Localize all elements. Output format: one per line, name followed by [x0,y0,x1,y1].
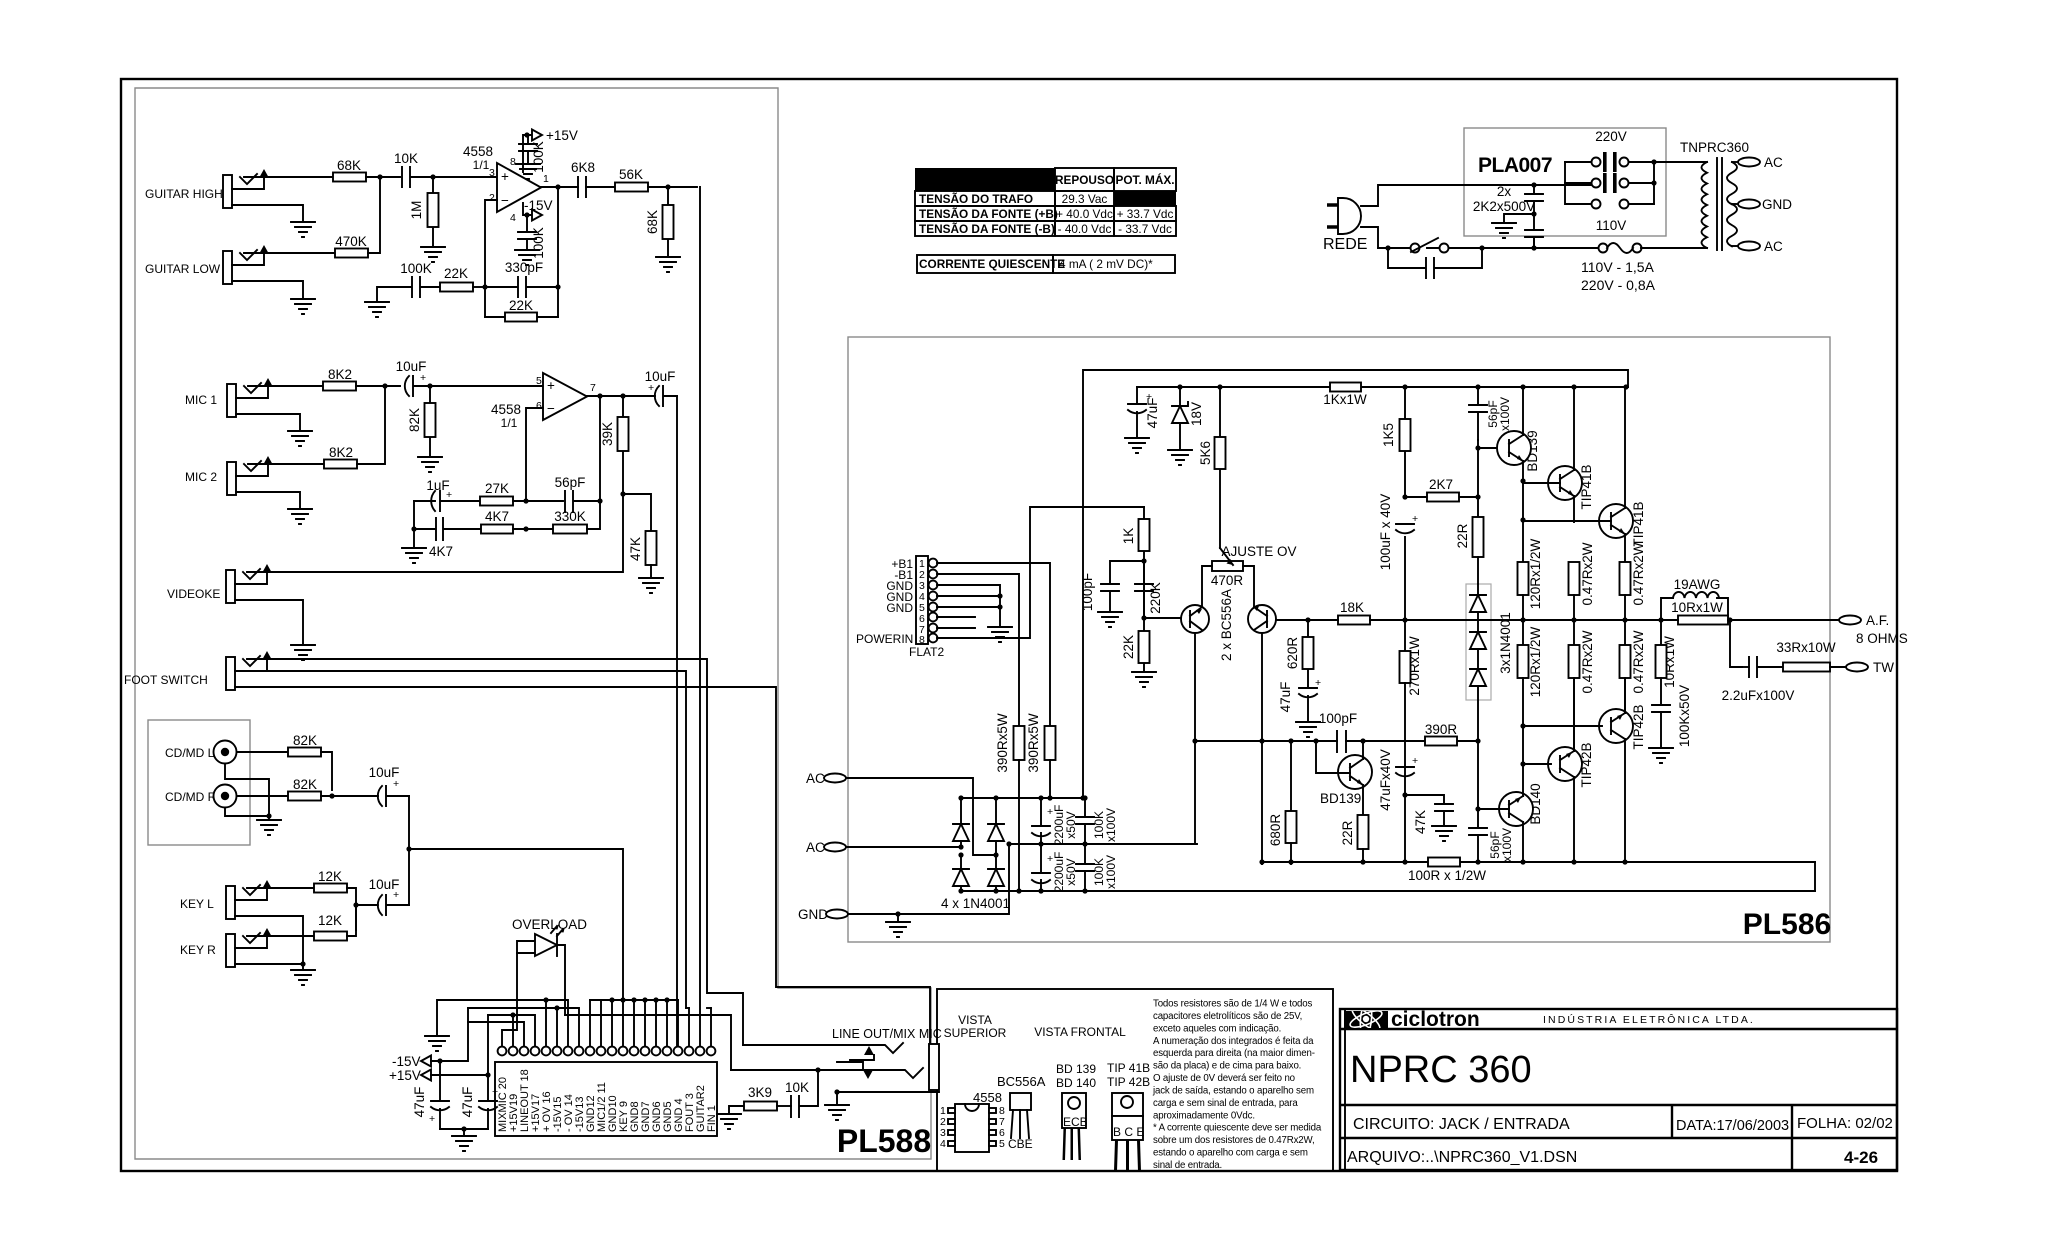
svg-text:LINE OUT/MIX MIC: LINE OUT/MIX MIC [832,1027,942,1041]
svg-text:22K: 22K [444,266,468,281]
svg-text:19AWG: 19AWG [1674,577,1721,592]
line out ring contact [731,1068,923,1078]
transistor BC556A (2) [1248,605,1276,633]
svg-text:22R: 22R [1455,523,1470,548]
svg-text:2K7: 2K7 [1429,477,1453,492]
svg-text:GND: GND [798,907,828,922]
gnd rail junction dots [590,999,678,1001]
junction base BD139 [1475,445,1480,450]
ground between caps [1504,214,1534,223]
svg-text:−: − [547,401,555,416]
svg-text:10K: 10K [785,1080,809,1095]
wire op-amp output [541,186,578,188]
svg-text:5: 5 [999,1138,1005,1150]
svg-text:56K: 56K [619,167,643,182]
svg-text:FLAT2: FLAT2 [909,645,944,659]
svg-text:330K: 330K [554,509,586,524]
svg-text:470K: 470K [335,234,367,249]
svg-text:+: + [1146,391,1152,403]
svg-text:3K9: 3K9 [748,1085,772,1100]
svg-text:18K: 18K [1340,600,1364,615]
svg-text:220V: 220V [1595,129,1627,144]
ground 0V rail [425,1036,449,1051]
svg-text:110V: 110V [1596,218,1627,233]
svg-text:+ 33.7 Vdc: + 33.7 Vdc [1117,207,1174,221]
wire base bc556a-2 to 18K [1276,619,1338,621]
svg-text:1K5: 1K5 [1381,423,1396,447]
svg-text:KEY L: KEY L [180,897,214,911]
svg-text:4 mA ( 2 mV DC)*: 4 mA ( 2 mV DC)* [1059,257,1153,271]
svg-text:esquerda para direita (na mai: esquerda para direita (na maior dimen- [1153,1048,1315,1059]
connector pins [498,1047,716,1056]
svg-text:1/1: 1/1 [501,416,518,430]
svg-text:120Rx1/2W: 120Rx1/2W [1528,538,1543,609]
svg-text:capacitores eletrolíticos sã: capacitores eletrolíticos são de 25V, [1153,1011,1302,1022]
wire pin6 pin7 stubs [937,617,975,628]
line out tip contact [743,1043,903,1053]
svg-text:PLA007: PLA007 [1478,154,1552,177]
wire to op-amp pin5 [430,385,543,387]
svg-text:FIN 1: FIN 1 [706,1105,718,1132]
wire guitar high tip [244,176,333,178]
svg-text:SUPERIOR: SUPERIOR [944,1026,1007,1040]
svg-text:aproximadamente 0Vdc.: aproximadamente 0Vdc. [1153,1110,1255,1121]
svg-text:220K: 220K [1148,582,1163,614]
svg-text:TW: TW [1873,660,1894,675]
svg-text:BD 140: BD 140 [1056,1076,1096,1090]
table header black cell [915,168,1055,191]
svg-text:KEY R: KEY R [180,943,216,957]
svg-text:x100V: x100V [1104,855,1118,889]
svg-text:-15V: -15V [392,1054,421,1069]
ground mic1 sleeve [236,414,300,431]
svg-text:5K6: 5K6 [1198,441,1213,465]
svg-text:sobre um dos resistores de 0: sobre um dos resistores de 0.47Rx2W, [1153,1135,1315,1146]
svg-text:estando o aparelho com carga: estando o aparelho com carga e sem [1153,1148,1308,1159]
svg-text:5: 5 [536,375,542,387]
svg-text:FOOT SWITCH: FOOT SWITCH [124,673,208,687]
svg-text:PL588: PL588 [837,1123,931,1159]
svg-text:0.47Rx2W: 0.47Rx2W [1580,542,1595,605]
ground [515,250,539,265]
svg-text:GUITAR HIGH: GUITAR HIGH [145,187,223,201]
svg-text:100R x 1/2W: 100R x 1/2W [1408,868,1486,883]
svg-text:4: 4 [510,212,516,224]
wire [513,500,563,502]
svg-text:47K: 47K [628,537,643,561]
svg-text:+: + [648,382,654,394]
terminal TW [1846,663,1868,672]
svg-text:TNPRC360: TNPRC360 [1680,140,1749,155]
svg-text:TIP 41B: TIP 41B [1107,1061,1150,1075]
wire GND5 [937,596,1000,607]
svg-text:POWERIN: POWERIN [856,632,913,646]
svg-text:82K: 82K [293,733,317,748]
ground under 82K [418,457,442,472]
wire -B1 [937,574,1019,726]
wire inverting input [526,408,543,501]
connector box FIN20 [495,1062,717,1136]
svg-text:4558: 4558 [973,1090,1002,1105]
svg-text:47uF: 47uF [460,1087,475,1118]
svg-text:BD 139: BD 139 [1056,1062,1096,1076]
wire fout riser [686,1007,689,1009]
wire 330K right [587,501,600,529]
svg-text:ARQUIVO:..\NPRC360_V1.DSN: ARQUIVO:..\NPRC360_V1.DSN [1347,1149,1577,1166]
svg-text:120Rx1/2W: 120Rx1/2W [1528,626,1543,697]
svg-text:47K: 47K [1413,810,1428,834]
svg-text:56pF: 56pF [555,475,586,490]
svg-text:GND: GND [886,601,913,615]
wire 8K2 to node [357,386,385,464]
capacitor across switch [1388,248,1482,278]
svg-text:390Rx5W: 390Rx5W [995,713,1010,773]
svg-text:x100V: x100V [1498,397,1512,431]
svg-text:jack de saída, estando o apa: jack de saída, estando o aparelho sem [1152,1085,1314,1096]
wire cd L [237,751,288,753]
svg-text:B C E: B C E [1113,1125,1144,1139]
wire bus mic out [676,396,678,1046]
capacitor 2K2x500V lower [1525,214,1543,248]
svg-text:+: + [1047,853,1053,865]
svg-text:2.2uFx100V: 2.2uFx100V [1722,688,1795,703]
svg-text:6: 6 [536,400,542,412]
ground mic2 sleeve [236,492,300,509]
selector mid row [1565,182,1654,184]
jack sleeve ground [837,1092,939,1105]
svg-text:A.F.: A.F. [1866,613,1889,628]
svg-text:39K: 39K [600,422,615,446]
svg-text:A numeração dos integrados é f: A numeração dos integrados é feita da [1153,1036,1314,1047]
svg-text:REDE: REDE [1323,236,1367,253]
svg-text:100pF: 100pF [1080,573,1095,611]
transistor BC556A (1) [1181,605,1209,633]
svg-text:são da placa) e de cima par: são da placa) e de cima para baixo. [1153,1061,1301,1072]
node A junction [377,174,382,179]
svg-text:Todos resistores são de 1/4 W: Todos resistores são de 1/4 W e todos [1153,999,1313,1010]
svg-text:68K: 68K [645,210,660,234]
wire FIN pin8 [937,507,1144,638]
svg-text:+: + [393,889,399,901]
wire GND3 [937,585,1000,596]
svg-text:+: + [429,1113,435,1125]
svg-text:4 x 1N4001: 4 x 1N4001 [941,896,1010,911]
pin labels [497,1069,718,1132]
svg-text:FOLHA: 02/02: FOLHA: 02/02 [1797,1115,1893,1132]
svg-text:4558: 4558 [491,402,521,417]
wire pin4 to -15V [523,203,531,215]
ground [516,164,540,179]
bias line [1197,740,1478,742]
svg-text:OVERLOAD: OVERLOAD [512,917,587,932]
pin riser wires [437,1000,579,1046]
svg-text:VIDEOKE: VIDEOKE [167,587,220,601]
svg-text:- 33.7 Vdc: - 33.7 Vdc [1118,222,1172,236]
rails rectifier [961,797,1083,799]
svg-text:REPOUSO: REPOUSO [1055,173,1114,187]
svg-text:220V - 0,8A: 220V - 0,8A [1581,277,1656,293]
svg-text:18V: 18V [1189,402,1204,426]
wire pin8 to +15V [523,135,531,172]
svg-text:+15V: +15V [389,1068,421,1083]
node junction 1M [430,174,435,179]
svg-text:+: + [393,778,399,790]
svg-text:O ajuste de 0V deverá ser: O ajuste de 0V deverá ser feito no [1153,1073,1295,1084]
corrente quiescente box [917,255,1053,273]
svg-text:* A corrente quiescente deve s: * A corrente quiescente deve ser medida [1153,1123,1322,1134]
svg-text:NPRC 360: NPRC 360 [1350,1049,1532,1091]
svg-text:390R: 390R [1425,722,1458,737]
wire bc556 collector 2 [1261,633,1263,864]
svg-text:BC556A: BC556A [997,1074,1046,1089]
mains switch [1378,247,1455,249]
row tensao do trafo [915,191,1055,206]
wire selector to plug line [1531,182,1536,187]
svg-text:TENSÃO DA FONTE (-B): TENSÃO DA FONTE (-B) [919,222,1055,236]
resistor 3K9 [717,1114,741,1129]
svg-text:INDÚSTRIA ELETRÔNICA LTDA.: INDÚSTRIA ELETRÔNICA LTDA. [1543,1013,1755,1026]
svg-text:x100V: x100V [1104,808,1118,842]
svg-text:22K: 22K [1121,635,1136,659]
svg-text:CBE: CBE [1008,1137,1033,1151]
svg-text:100uF x 40V: 100uF x 40V [1378,494,1393,571]
svg-text:12K: 12K [318,913,342,928]
terminal A.F. [1839,616,1861,625]
svg-text:29.3 Vac: 29.3 Vac [1062,192,1108,206]
tweeter branch [1730,620,1742,667]
svg-text:82K: 82K [293,777,317,792]
ground main [897,914,899,922]
svg-text:ciclotron: ciclotron [1391,1008,1480,1031]
diode D1 [961,798,996,891]
svg-text:CD/MD R: CD/MD R [165,790,217,804]
wire 470K to node A [368,177,380,253]
svg-text:+15V: +15V [546,128,578,143]
svg-text:TIP 42B: TIP 42B [1107,1075,1150,1089]
wire cd R [237,795,288,797]
svg-text:0.47Rx2W: 0.47Rx2W [1631,542,1646,605]
wire [513,528,553,530]
wire plug line [1361,185,1596,206]
svg-text:8 OHMS: 8 OHMS [1856,631,1908,646]
wire to bus [648,186,697,188]
svg-text:+: + [446,489,452,501]
row fonte +B [915,206,1055,221]
ground guitar high sleeve [232,205,303,222]
svg-text:+ 40.0 Vdc: + 40.0 Vdc [1056,207,1113,221]
wire guitar low tip [244,252,335,254]
rail +B [1137,386,1628,388]
svg-text:4: 4 [940,1138,946,1150]
svg-text:390Rx5W: 390Rx5W [1026,713,1041,773]
pot end wires [1202,566,1254,606]
svg-text:1/1: 1/1 [473,158,490,172]
wire feedback node to 330pF [485,187,558,317]
svg-text:+: + [501,169,509,184]
junction bias line [1475,738,1480,743]
svg-text:330pF: 330pF [505,260,543,275]
svg-text:CD/MD L: CD/MD L [165,746,215,760]
PL586 power amp boundary box [848,337,1830,942]
svg-text:22R: 22R [1340,820,1355,845]
svg-text:3: 3 [489,167,495,179]
svg-text:3x1N4001: 3x1N4001 [1498,612,1513,674]
ground for 100K input [365,302,389,317]
wire foot switch sleeve [235,687,930,1045]
wire [586,186,615,188]
wire cd mix to bus [409,796,623,1000]
wire +B1 [937,563,1050,726]
wire key R tip [247,935,314,937]
BC556A package [997,1074,1046,1151]
svg-text:0.47Rx2W: 0.47Rx2W [1631,630,1646,693]
svg-text:MIC 1: MIC 1 [185,393,217,407]
wire key L tip [247,887,314,889]
svg-text:47uF: 47uF [412,1087,427,1118]
mains plug REDE [1338,198,1361,234]
svg-text:8: 8 [919,634,925,646]
svg-text:27K: 27K [485,481,509,496]
svg-text:10Rx1W: 10Rx1W [1671,600,1723,615]
wire mic2 tip [248,463,324,465]
svg-text:+: + [492,1086,498,1098]
svg-text:4558: 4558 [463,144,493,159]
svg-text:100pF: 100pF [1319,711,1357,726]
svg-text:12K: 12K [318,869,342,884]
svg-text:GND: GND [1762,197,1792,212]
terminal -15V [532,210,542,221]
svg-text:CIRCUITO: JACK / ENTRADA: CIRCUITO: JACK / ENTRADA [1353,1116,1570,1133]
ground under 1M [421,247,445,262]
wire mic1 tip [248,385,323,387]
svg-text:-15V: -15V [524,198,553,213]
secondary GND mid [1732,203,1742,205]
svg-text:BD139: BD139 [1320,791,1361,806]
wire led down [502,953,517,1046]
rail -B bias [1262,861,1815,863]
svg-text:620R: 620R [1285,637,1300,670]
svg-text:+: + [1047,806,1053,818]
svg-text:−: − [501,193,509,208]
page outer border [121,79,1897,1171]
svg-text:8K2: 8K2 [329,445,353,460]
svg-text:POT. MÁX.: POT. MÁX. [1116,173,1175,187]
svg-text:AC: AC [1764,155,1783,170]
svg-text:VISTA: VISTA [958,1013,992,1027]
wire videoke tip to mix node [247,494,623,572]
wire bc556 collector 1 [1194,633,1196,844]
svg-text:33Rx10W: 33Rx10W [1776,640,1836,655]
diode D3 D4 [953,869,1004,886]
wire op-amp2 output [587,395,655,397]
svg-text:47uF: 47uF [1278,682,1293,713]
wire base bc556a-1 [1144,617,1181,619]
ground guitar low sleeve [232,281,303,299]
svg-text:4K7: 4K7 [429,544,453,559]
svg-text:0.47Rx2W: 0.47Rx2W [1580,630,1595,693]
wire plug neutral [1361,227,1378,248]
wire [356,385,400,387]
row fonte -B [915,221,1055,236]
svg-text:- 40.0 Vdc: - 40.0 Vdc [1058,222,1112,236]
wire [366,176,400,178]
svg-text:MIC 2: MIC 2 [185,470,217,484]
fuse [1534,247,1599,249]
svg-text:GUITAR LOW: GUITAR LOW [145,262,221,276]
svg-text:x50V: x50V [1064,858,1078,885]
PL588 preamp boundary box [135,88,931,1159]
svg-text:100K: 100K [531,141,546,173]
svg-text:AC: AC [806,840,825,855]
svg-text:4-26: 4-26 [1844,1148,1878,1167]
svg-text:exceto aqueles com indicação.: exceto aqueles com indicação. [1153,1023,1281,1034]
output rail [1308,619,1661,621]
svg-text:47uFx40V: 47uFx40V [1378,749,1393,811]
svg-text:7: 7 [590,382,596,394]
secondary AC top [1732,161,1742,163]
svg-text:TENSÃO DA FONTE (+B): TENSÃO DA FONTE (+B) [919,207,1058,221]
svg-text:110V - 1,5A: 110V - 1,5A [1581,259,1655,275]
svg-text:TENSÃO DO TRAFO: TENSÃO DO TRAFO [919,192,1033,206]
wire to 47K [623,494,651,531]
svg-text:AC: AC [1764,239,1783,254]
svg-text:1K: 1K [1121,528,1136,545]
ground flat2 [999,607,1001,627]
wire 22K to inverting node [473,286,485,288]
svg-text:1: 1 [543,173,549,185]
notes text [1152,999,1322,1172]
svg-text:+: + [420,372,426,384]
BD139/BD140 package [1056,1062,1096,1160]
ciclotron logo [1344,1002,1755,1037]
svg-text:AJUSTE OV: AJUSTE OV [1221,544,1296,559]
svg-text:CORRENTE QUIESCENTE: CORRENTE QUIESCENTE [919,257,1065,271]
terminal +15V [532,130,542,141]
svg-text:1M: 1M [409,201,424,220]
ground videoke sleeve [235,600,303,645]
ground caps [440,1129,488,1136]
svg-text:680R: 680R [1268,814,1283,847]
ground [413,529,415,548]
svg-text:ECB: ECB [1063,1115,1088,1129]
wire fin riser [707,1007,711,1009]
capacitor 4K7 (lower left) [414,501,481,540]
wire -B join [1814,862,1816,891]
wire foot switch ring [252,671,686,1008]
wire foot switch tip [247,659,743,1045]
TIP41B/TIP42B package [1107,1061,1150,1171]
wire to op-amp [433,176,497,178]
4558 DIP8 package [940,1090,1005,1152]
svg-text:DATA:17/06/2003: DATA:17/06/2003 [1676,1118,1789,1134]
svg-text:22K: 22K [509,298,533,313]
svg-text:sinal de entrada.: sinal de entrada. [1153,1160,1222,1171]
svg-text:carga e sem sinal de entrada,: carga e sem sinal de entrada, para [1153,1098,1298,1109]
svg-text:82K: 82K [407,408,422,432]
svg-text:6K8: 6K8 [571,160,595,175]
secondary AC bottom [1732,245,1742,247]
svg-text:VISTA FRONTAL: VISTA FRONTAL [1034,1025,1126,1039]
svg-text:+: + [1412,755,1418,767]
PLA007 selector box [1464,128,1666,236]
svg-text:100K: 100K [400,261,432,276]
svg-text:8: 8 [510,156,516,168]
svg-text:+: + [547,378,555,393]
wire GND4 [937,595,1000,597]
svg-text:10K: 10K [394,151,418,166]
ground under 68K [656,257,680,272]
svg-text:100Kx50V: 100Kx50V [1677,685,1692,747]
